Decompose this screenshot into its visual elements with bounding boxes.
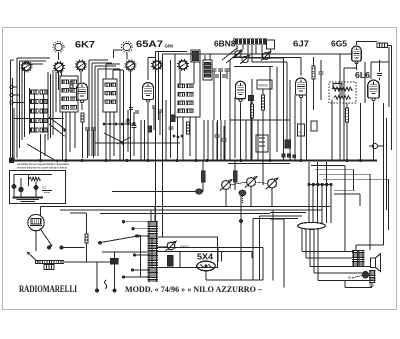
wire tone links	[179, 252, 181, 268]
tone control box	[152, 237, 218, 268]
capacitor C18 electrolytic	[239, 190, 246, 196]
junction node HT	[239, 219, 242, 222]
speaker cone	[376, 254, 381, 272]
wire mains lead 2	[114, 264, 116, 290]
wire nest right 3	[319, 173, 370, 175]
tuning gang rotor C1d	[126, 61, 135, 70]
terminal mains 2	[113, 289, 116, 292]
heater run 3	[309, 229, 311, 267]
wire pickup riser	[40, 207, 42, 215]
T5 tap lead 5	[124, 276, 149, 278]
wire T3 internal risers	[179, 70, 181, 84]
potentiometer P3	[222, 181, 231, 190]
resistor R18 bias	[85, 234, 88, 243]
RF transformer T1 box	[60, 76, 78, 112]
wire V2 grid cap lead	[147, 58, 149, 81]
svg-text:50000: 50000	[259, 84, 269, 88]
wire volume out	[64, 261, 87, 263]
wire antenna bundle top bends	[17, 57, 50, 59]
heater run 2	[305, 229, 307, 258]
wire B+ step 2	[260, 215, 303, 217]
grid network dashed box	[329, 82, 356, 103]
volume potentiometer track	[35, 260, 64, 262]
svg-text:5X4: 5X4	[197, 253, 214, 262]
wire vertical x273	[272, 210, 274, 281]
tube V7 5X4 envelope	[197, 261, 215, 271]
wire nest short 1	[334, 190, 355, 192]
capacitor C16 electrolytic	[111, 259, 119, 265]
field coil blob	[362, 272, 368, 278]
wire harness V1 bends	[89, 59, 108, 61]
mains cord squiggle	[105, 280, 107, 289]
wire bias rail	[87, 261, 111, 263]
wire V5 bottom drop	[356, 62, 358, 70]
power transformer T5 winding	[148, 222, 150, 283]
wire HT return loop	[206, 279, 263, 281]
padder side box	[267, 40, 275, 49]
svg-text:RADIOMARELLI: RADIOMARELLI	[19, 284, 77, 294]
wire AF link	[112, 191, 203, 193]
svg-text:0,1: 0,1	[42, 186, 47, 190]
heater run 1	[301, 229, 303, 251]
inset capacitor blob 3	[34, 185, 38, 189]
T5 tap lead 2	[134, 228, 150, 230]
wire V1 cathode drop	[81, 103, 83, 110]
volume arrow	[27, 252, 38, 262]
wire V3 drops	[240, 102, 242, 160]
cable bundle oval	[298, 222, 326, 229]
resistor R13 zigzag	[332, 87, 352, 91]
component box mid	[256, 135, 268, 152]
wire antenna bundle	[10, 60, 12, 157]
diode load resistor R9	[250, 104, 253, 118]
resistor R19	[201, 171, 205, 182]
wire AVC verticals	[339, 54, 341, 160]
wire T2 risers	[105, 64, 107, 79]
inset ground bar	[13, 197, 44, 199]
inset small cap	[42, 190, 52, 192]
wire 6L6 cathode drop	[373, 101, 375, 160]
wire pickup drop	[35, 231, 37, 251]
rail below bus right	[228, 163, 290, 165]
resistor R12	[377, 43, 388, 47]
ferrite bead X1	[373, 144, 378, 149]
tuning gang rotor C1b	[55, 63, 64, 72]
detector caps row 2	[215, 74, 219, 76]
wire V4 drops	[300, 98, 302, 160]
potentiometer P5	[268, 179, 277, 188]
resistor R14 zigzag	[334, 96, 350, 100]
T3 top component	[191, 50, 200, 62]
wire mains lead 1	[96, 262, 98, 290]
inset top rail	[14, 174, 52, 176]
caps under mixer	[129, 107, 133, 109]
output transformer T6 winding 2	[358, 251, 360, 267]
resistor R1 screen	[70, 82, 73, 91]
wire P2 lead	[63, 247, 85, 249]
wire eye rail	[344, 67, 357, 69]
screen dropper R3	[81, 113, 84, 122]
wire osc bundle right of L1	[47, 72, 49, 140]
terminal earth	[10, 101, 13, 104]
svg-text:W.6: W.6	[348, 276, 354, 280]
caps C2 C3	[85, 127, 90, 129]
wire AF rail upper	[41, 206, 331, 208]
oscillator transformer T3 box	[175, 54, 200, 117]
T2 winding row 3	[105, 100, 110, 103]
tone pot star	[167, 242, 175, 250]
wire B+ vertical 1	[252, 219, 254, 281]
tuning gang rotor C1e	[153, 61, 162, 70]
capacitor C12	[319, 71, 324, 73]
terminal P2	[60, 246, 63, 249]
switch S2 arm	[104, 133, 124, 143]
wire HT vertical b	[240, 196, 242, 280]
tuning gang rotor C1c	[77, 61, 86, 70]
heater run 5	[317, 229, 319, 281]
resistor R6	[186, 122, 189, 134]
wire B+ step 1	[253, 218, 298, 220]
antenna coil L1 row 5	[31, 128, 39, 132]
T1 winding row 2	[62, 89, 69, 93]
heater harness verticals	[308, 186, 310, 223]
wire L1 rails	[29, 88, 31, 134]
wire nest right 2	[315, 168, 354, 170]
rail detector left	[203, 64, 212, 66]
capacitor C11 block	[249, 96, 254, 101]
wire V5 top lead	[356, 42, 358, 45]
wire nest right 4	[323, 178, 389, 180]
wire bottom outer run	[344, 281, 346, 288]
wire AVC rail	[162, 53, 352, 55]
inset capacitor blob 1	[12, 184, 16, 188]
potentiometer P4	[247, 178, 256, 187]
T2 winding row 1	[105, 83, 110, 86]
wire B+ step 3	[270, 212, 306, 214]
wire T3 drops	[177, 117, 179, 160]
wire HT lead lower	[157, 251, 253, 253]
voltage selector arm	[101, 236, 141, 243]
phono pickup head	[28, 214, 44, 230]
antenna coil L1 row 2	[31, 100, 39, 104]
terminal antenna A1	[10, 86, 13, 89]
svg-text:6BN8: 6BN8	[214, 40, 236, 49]
junction caps above bus	[282, 154, 285, 157]
heater strip feeds	[308, 162, 310, 183]
wire padder drops	[236, 45, 238, 51]
rail top oscillator	[156, 51, 188, 53]
svg-text:MODD. « 74/96 » « NILO AZZ: MODD. « 74/96 » « NILO AZZURRO –	[125, 284, 263, 294]
tube V2 65A7 envelope	[143, 83, 154, 100]
wire C16 top rail	[102, 251, 149, 253]
resistor R5 dark	[148, 126, 152, 132]
band switch diagonal	[27, 144, 58, 162]
tuning gang rotor C1f	[179, 61, 188, 70]
wire mixer aux verticals	[162, 54, 164, 237]
wire harness V1 verticals	[88, 60, 90, 156]
svg-text:6G5: 6G5	[331, 39, 347, 49]
wire bus drops T2 right	[119, 69, 121, 160]
resistor label box 2	[311, 121, 317, 131]
T5 tap lead 4	[135, 254, 149, 256]
T5 tap lead 1	[124, 221, 149, 223]
wire V2 cathode drop	[147, 103, 149, 160]
wire CT2 feed	[113, 50, 115, 58]
capacitor C20	[370, 283, 374, 285]
tube V1 6K7 envelope	[77, 83, 88, 100]
terminal P1	[47, 246, 50, 249]
svg-text:50000: 50000	[180, 245, 189, 249]
grid cap diagonal wire 2	[226, 51, 241, 63]
grid cap diagonal wire 1	[222, 48, 237, 60]
wire B+ vertical 2	[259, 216, 261, 280]
IF transformer T4 box	[203, 60, 212, 80]
wire bus drops group	[119, 120, 121, 160]
heater run 4	[313, 229, 315, 273]
IF transformer T2 box	[103, 79, 117, 112]
wire HT lead upper	[157, 247, 264, 249]
svg-text:6L6: 6L6	[355, 70, 370, 80]
wire right verticals	[383, 103, 385, 245]
T1 winding row 4	[62, 106, 69, 110]
svg-text:tensioni misurate fra i punti: tensioni misurate fra i punti indicati e…	[17, 165, 67, 169]
svg-text:65A7: 65A7	[136, 38, 163, 49]
tube V3 6BN8 envelope	[236, 81, 246, 99]
wire 6J7 grid rail	[232, 57, 301, 59]
wire zig drops	[341, 91, 343, 96]
T1 winding row 1	[62, 80, 69, 84]
wire V4 plate riser	[300, 58, 302, 76]
dashed box inner component	[333, 84, 342, 89]
capacitor C4b	[132, 125, 137, 127]
svg-text:6J7: 6J7	[293, 39, 309, 49]
wire vertical x284	[283, 219, 285, 288]
tube V5 6G5 envelope	[352, 46, 362, 61]
resistor R20	[233, 171, 237, 182]
capacitor C7	[169, 126, 174, 128]
tube V4 6J7 envelope	[296, 78, 307, 95]
bus junction dots	[39, 159, 41, 161]
wire T1 drops	[62, 112, 64, 160]
rail detector mid	[234, 66, 273, 68]
antenna coil L1 row 3	[31, 109, 39, 113]
antenna coil L1 row 4	[31, 119, 39, 123]
trimmer CT5	[263, 53, 270, 60]
trimmer CT1 dashed	[55, 43, 62, 50]
capacitor C14	[379, 60, 381, 72]
svg-text:6K7: 6K7	[75, 39, 95, 50]
wire T2 drops	[105, 112, 107, 160]
wire nest short 2	[334, 193, 360, 195]
capacitor C6 dark	[171, 115, 176, 122]
T3 winding row 3	[178, 101, 185, 105]
inset resistor zigzag	[29, 177, 40, 181]
inset capacitor blob 2	[19, 187, 24, 192]
wire selector drop	[140, 236, 142, 278]
diagonal wire mid	[117, 137, 131, 144]
capacitor C10	[222, 138, 227, 140]
wire 6L6 aux verticals	[364, 62, 366, 103]
wire left drop	[13, 108, 15, 160]
output transformer T6 winding 1	[353, 251, 355, 267]
wire mid drops 2	[213, 79, 215, 120]
wire R12 right drop	[388, 44, 392, 46]
capacitor block dark	[285, 140, 291, 148]
tone resistor dark	[168, 256, 174, 267]
wire padder bends	[247, 45, 249, 58]
ground bus line	[11, 160, 377, 162]
wire CT2-gear link	[130, 71, 132, 161]
resistor box R8	[257, 80, 272, 89]
wire T4 risers	[204, 55, 206, 60]
rail mid 2	[230, 119, 290, 121]
wave switch S1 arms	[49, 117, 66, 130]
wire V1 grid cap lead	[80, 71, 82, 83]
T3 winding row 4	[178, 109, 185, 113]
resistor R10	[312, 66, 315, 79]
T2 winding row 2	[105, 92, 110, 95]
wire mixer rails	[155, 52, 157, 223]
switch contacts under T3	[173, 135, 175, 137]
wire pot links	[230, 182, 246, 185]
speaker frame	[371, 258, 376, 268]
trimmer CT2 dashed	[123, 43, 130, 50]
resistor R9b	[261, 95, 264, 110]
T1 winding row 3	[62, 97, 69, 101]
wire 5X4 cathode drop	[205, 271, 207, 280]
rail AF third	[100, 213, 270, 215]
wire T1 riser	[61, 71, 63, 76]
capacitor C17 electrolytic	[196, 189, 202, 194]
wire 5X4 anode leads	[217, 248, 219, 262]
terminal mains 1	[95, 289, 98, 292]
resistor label box 1	[298, 124, 305, 136]
tube V6 6L6 envelope	[368, 80, 380, 98]
terminal strip dots	[308, 183, 311, 186]
phono switch S3 arm	[40, 229, 52, 247]
wire 6L6 anode riser	[370, 62, 372, 79]
wire AF rail lower	[60, 209, 322, 211]
rail mid 1	[95, 142, 180, 144]
volume tap box	[44, 265, 54, 270]
capacitor C9	[215, 134, 220, 136]
tuning gang rotor C1a	[22, 62, 31, 71]
antenna coil L1 row 1	[31, 90, 39, 94]
oscillator padder block	[234, 38, 266, 45]
terminal antenna A2	[10, 94, 13, 97]
T3 winding row 1	[178, 84, 185, 88]
wire 6J7 aux	[306, 95, 308, 160]
T5 tap lead 6	[133, 269, 149, 271]
bus end block	[10, 158, 14, 163]
resistor R15	[345, 108, 348, 122]
wire L1 drops	[40, 134, 42, 160]
detector caps row 1	[212, 68, 217, 70]
wire anode feed bend	[356, 244, 384, 246]
T5 tap lead 3	[137, 235, 149, 237]
svg-text:G/M: G/M	[165, 44, 174, 49]
svg-text:sensibilita 7uV per segnale 50: sensibilita 7uV per segnale 50mW in alto…	[17, 162, 69, 166]
T3 winding row 2	[178, 93, 185, 97]
wire nest right 1	[311, 165, 345, 167]
rail left mid	[14, 118, 64, 120]
caps right of mixer	[152, 105, 156, 107]
trimmer CT4	[242, 56, 248, 62]
capacitor C4	[126, 121, 131, 123]
wire det verticals	[229, 60, 231, 160]
inset risers	[13, 175, 15, 198]
inset detail box	[10, 171, 66, 204]
speaker field coil winding	[369, 271, 371, 284]
trimmer CT3	[235, 51, 241, 57]
wire T5 top leads	[150, 210, 152, 222]
switch contacts row S2	[103, 123, 105, 125]
